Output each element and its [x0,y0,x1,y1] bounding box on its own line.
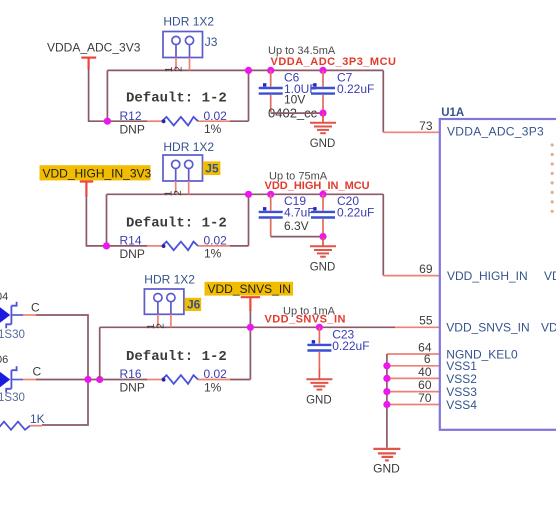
wire loop right block2 [248,194,250,246]
svg-text:70: 70 [418,391,432,405]
svg-text:HDR 1X2: HDR 1X2 [163,15,214,29]
junction loop2 top-right [245,191,252,198]
junction VSS1 [383,362,390,369]
capacitor C20 [322,194,324,210]
svg-text:J6: J6 [187,298,201,312]
resistor R12 [162,117,198,126]
junction dot C7 bottom [319,110,326,117]
power symbol VDD_HIGH_IN_3V3 [80,182,93,197]
svg-text:HDR 1X2: HDR 1X2 [144,272,195,286]
wire top rail block2 [107,193,384,195]
svg-text:04: 04 [0,291,8,303]
ground GND block1 [310,113,336,133]
svg-text:Up to 34.5mA: Up to 34.5mA [268,45,336,57]
capacitor C6 [270,70,272,86]
wire NGND_KEL0 pin 64 [387,353,440,355]
diode D..04 (schottky, partial) [0,302,23,329]
svg-text:DNP: DNP [120,381,145,395]
svg-text:GND: GND [310,262,336,274]
power stub VDD_SNVS_IN [241,297,260,311]
svg-text:GND: GND [373,462,400,476]
wire VSS3 pin 60 [387,391,440,393]
svg-text:73: 73 [419,119,433,133]
resistor R14 [162,242,198,251]
svg-text:60: 60 [418,378,432,392]
svg-text:VDD: VDD [544,269,556,283]
svg-text:R16: R16 [120,367,142,381]
wire VSS vertical [386,354,388,448]
pin lead J5-1 [175,181,177,194]
wire diode2 to R16 row [23,379,36,381]
junction loop1 bottom-left [104,118,111,125]
svg-text:C: C [31,301,40,315]
power symbol VDDA_ADC_3V3 [81,58,96,70]
svg-text:Default: 1-2: Default: 1-2 [126,349,227,365]
svg-text:1S30: 1S30 [0,329,25,341]
wire bottom R14 row [107,245,148,247]
junction C19 tap [267,191,274,198]
svg-text:U1A: U1A [441,107,464,119]
wire top rail block1 [107,69,383,71]
svg-text:DNP: DNP [120,247,145,261]
svg-text:Default: 1-2: Default: 1-2 [126,91,227,107]
svg-text:10V: 10V [284,93,305,107]
wire cap bottom rail block1 [271,112,323,114]
svg-text:VDD_SNVS_IN: VDD_SNVS_IN [208,282,291,296]
svg-text:R12: R12 [120,109,142,123]
capacitor C23 [318,327,320,343]
pin lead J6-1 [157,314,159,327]
svg-text:0.22uF: 0.22uF [337,82,374,96]
junction dot C23 tap [316,324,323,331]
svg-text:HDR 1X2: HDR 1X2 [163,140,214,154]
wire loop left J3 [106,70,108,121]
svg-text:Default: 1-2: Default: 1-2 [126,215,227,231]
svg-text:0.02: 0.02 [204,367,228,381]
junction dot VDD_SNVS_IN [247,324,254,331]
svg-text:69: 69 [419,262,433,276]
resistor 1K (partial) [0,422,30,430]
svg-text:2: 2 [174,66,185,72]
svg-text:40: 40 [418,365,432,379]
wire power stub to loop corner (block2) [86,196,106,246]
wire bottom R12 row [107,120,147,122]
svg-text:VDD_SNVS_IN: VDD_SNVS_IN [446,321,529,335]
svg-text:VDD_HIGH_IN_MCU: VDD_HIGH_IN_MCU [265,180,370,192]
svg-text:VDD_HIGH_IN_3V3: VDD_HIGH_IN_3V3 [43,166,152,180]
ground GND (VSS rail) [373,449,400,461]
svg-text:0.02: 0.02 [204,109,228,123]
svg-text:VDDA_ADC_3V3: VDDA_ADC_3V3 [47,41,141,55]
wire loop left block2 [106,194,108,246]
svg-text:0.02: 0.02 [204,234,228,248]
svg-text:VSS2: VSS2 [446,372,477,386]
wire loop left block3 [99,327,101,379]
pin lead J5-2 [188,181,190,194]
svg-text:0.22uF: 0.22uF [332,339,369,353]
svg-text:1K: 1K [30,412,45,426]
svg-text:0.22uF: 0.22uF [337,206,374,220]
svg-text:1%: 1% [204,247,222,261]
svg-text:R14: R14 [120,234,142,248]
junction dot loop3 bottom-left [96,376,103,383]
svg-text:VSS3: VSS3 [446,385,477,399]
svg-text:C: C [33,365,42,379]
svg-text:VDD_SNVS_IN: VDD_SNVS_IN [265,314,346,326]
junction C20 tap [319,191,326,198]
svg-text:J5: J5 [205,161,219,175]
junction VSS4 [383,401,390,408]
svg-text:VDDA_ADC_3P3_MCU: VDDA_ADC_3P3_MCU [271,56,397,68]
wire VSS4 pin 70 [387,404,440,406]
capacitor C7 [322,70,324,86]
wire branch to pin 69 [382,194,384,275]
wire loop right block1 [248,70,250,121]
junction C6 tap [267,67,274,74]
junction dot diode2 x wire [84,376,91,383]
ground GND block2 [310,237,336,257]
net label VDD_SNVS_IN (highlighted) [205,282,294,296]
diode D..06 (schottky, partial) [0,366,23,393]
svg-text:1S30: 1S30 [0,392,25,404]
svg-text:2: 2 [173,190,184,196]
svg-text:GND: GND [310,138,336,150]
junction loop2 bottom-left [103,242,110,249]
IC U1A body [440,119,556,430]
svg-text:1%: 1% [204,380,222,394]
svg-text:4.7uF: 4.7uF [284,206,315,220]
svg-text:VDD: VDD [541,321,556,335]
svg-text:06: 06 [0,354,8,366]
svg-text:6.3V: 6.3V [284,219,309,233]
wire diode1 to corner [23,314,36,316]
svg-text:J3: J3 [205,35,218,49]
svg-text:VSS4: VSS4 [446,398,477,412]
junction VSS3 [383,388,390,395]
wire cap bottom rail block2 [271,236,323,238]
capacitor C19 [270,194,272,210]
svg-text:DNP: DNP [120,122,145,136]
svg-text:VDD_HIGH_IN: VDD_HIGH_IN [447,269,528,283]
junction VSS2 [383,375,390,382]
wire branch to pin 73 [382,70,384,132]
pin lead J6-2 [170,314,172,327]
ground GND C23 [306,369,332,390]
junction loop1 top-right [245,67,252,74]
wire VSS2 pin 40 [387,377,440,379]
node column U1A hidden pin markers [551,143,554,213]
junction dot C20 bottom [319,233,326,240]
svg-text:55: 55 [419,314,433,328]
resistor R16 [162,375,198,384]
svg-text:2: 2 [155,323,166,329]
wire top rail block3 (to pin 55) [100,326,395,328]
svg-text:GND: GND [306,394,332,406]
svg-text:VDDA_ADC_3P3: VDDA_ADC_3P3 [447,125,544,139]
wire loop right block3 [249,327,251,379]
net label VDD_HIGH_IN_3V3 (highlighted) [40,165,151,180]
wire bottom R16 row [147,379,162,381]
pin lead J3-1 [175,58,177,71]
svg-text:1%: 1% [204,122,222,136]
wire power stub to loop corner [89,69,108,122]
junction C7 tap [319,67,326,74]
pin lead J3-2 [189,58,191,71]
wire VSS1 pin 6 [387,365,440,367]
